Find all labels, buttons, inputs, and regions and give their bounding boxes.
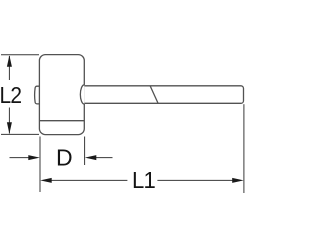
L1 dimension line right part <box>157 179 234 181</box>
arrowheads <box>7 55 244 183</box>
L1 left arrow (points left) <box>40 178 52 183</box>
svg-text:D: D <box>56 144 72 170</box>
D left extension + L1 left extension <box>39 137 41 193</box>
D left arrow (points right) <box>28 155 40 160</box>
D right extension <box>84 137 86 166</box>
L1 right arrow (points right) <box>232 178 244 183</box>
D right arrow tail <box>94 157 113 159</box>
left face insert bump <box>35 86 40 104</box>
L2 dimension line (with gap for text) <box>8 56 10 80</box>
labels <box>0 82 155 193</box>
L1 dimension line left part <box>50 179 127 181</box>
L2 bottom extension line <box>1 133 39 135</box>
L2 down arrow <box>7 122 12 134</box>
L1 right extension <box>243 104 245 193</box>
svg-text:L2: L2 <box>0 82 21 108</box>
svg-text:L1: L1 <box>132 167 155 193</box>
dimension graphics <box>1 55 244 193</box>
handle left end cap <box>80 85 84 104</box>
L2 top extension line <box>1 54 39 56</box>
handle <box>84 86 243 104</box>
D left arrow tail <box>10 157 31 159</box>
handle diagonal mark <box>150 86 158 103</box>
head lower band line <box>39 120 84 122</box>
L2 up arrow <box>7 55 12 67</box>
D right arrow (points left) <box>85 155 97 160</box>
hammer head outline <box>35 55 244 135</box>
